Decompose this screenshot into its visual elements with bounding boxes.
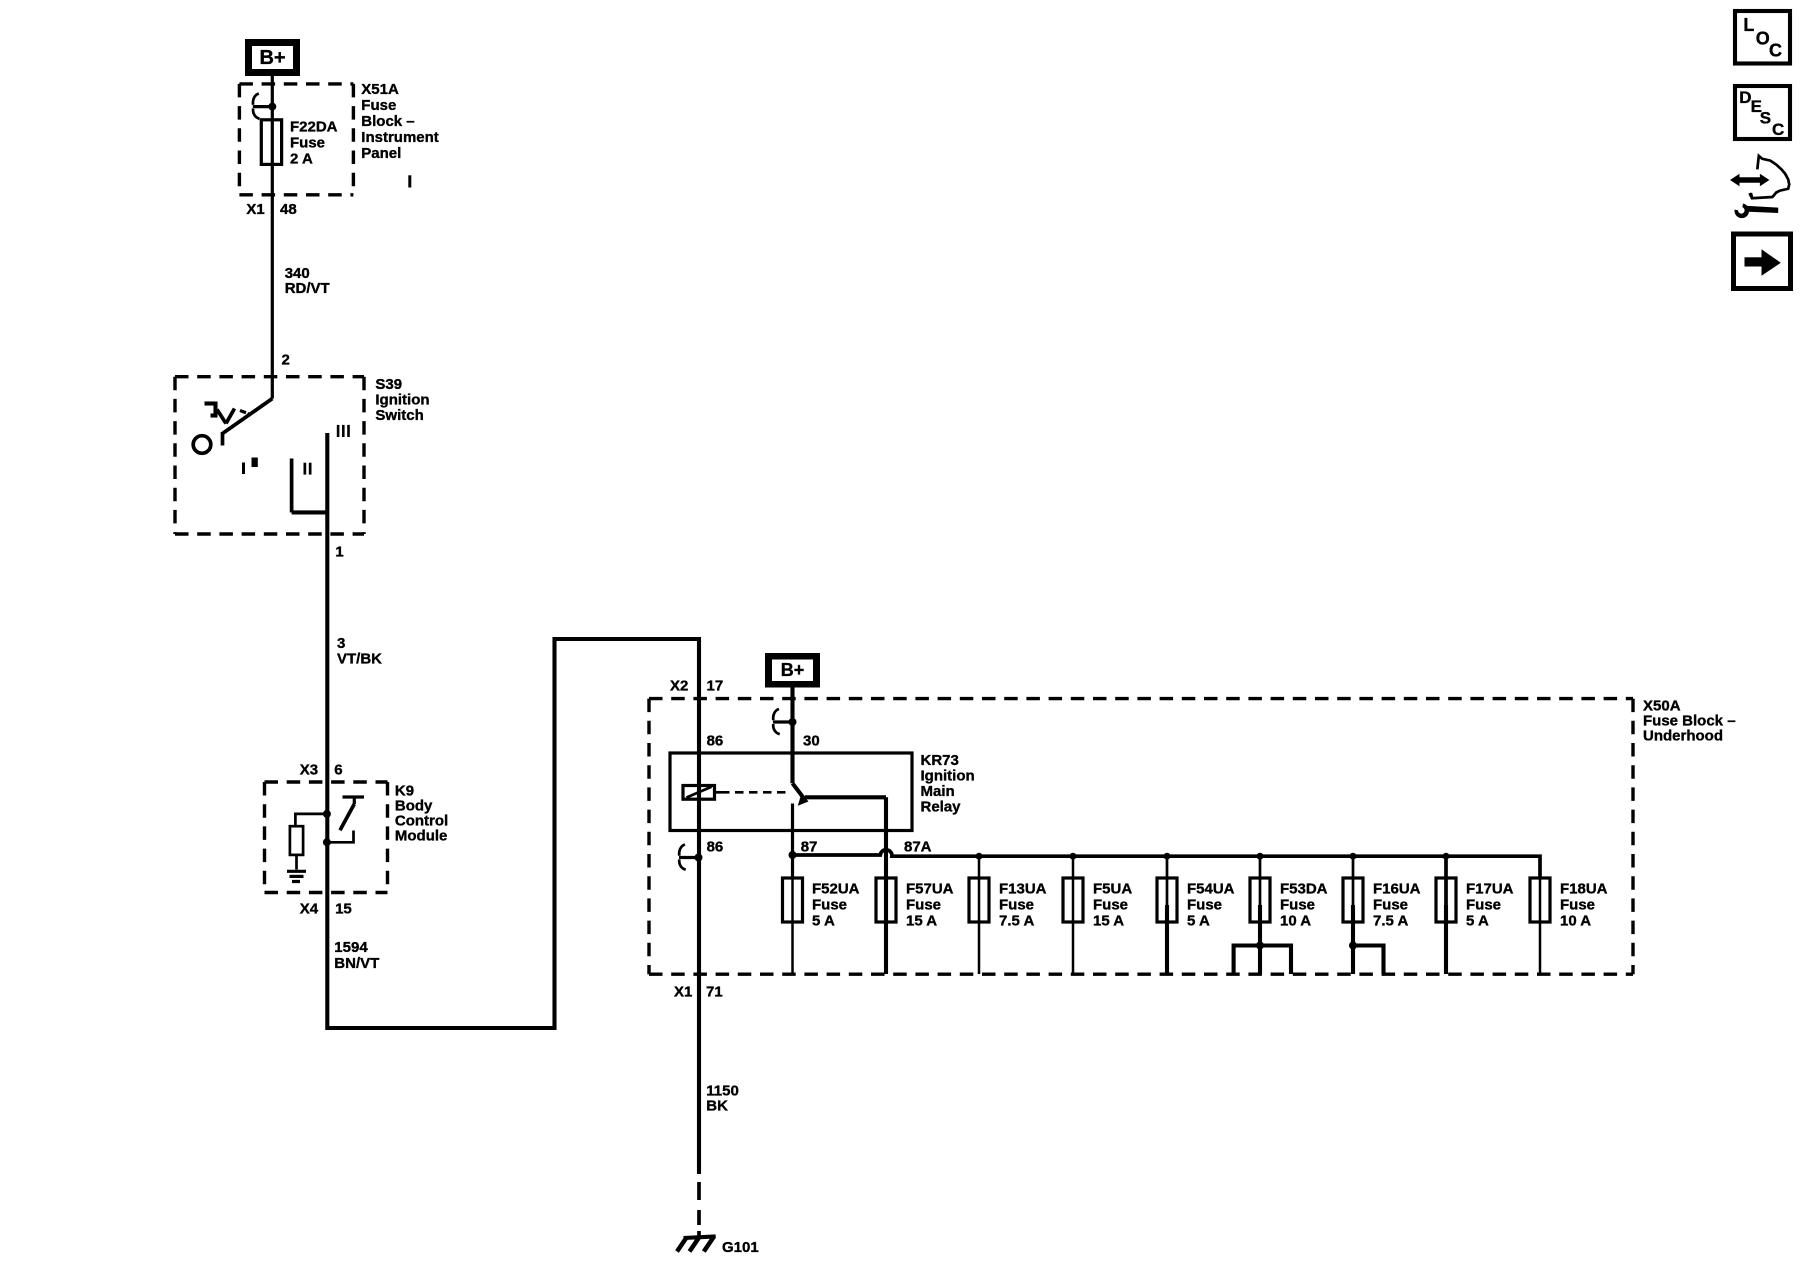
- svg-text:X51A: X51A: [361, 81, 399, 98]
- svg-text:G101: G101: [722, 1239, 759, 1256]
- svg-text:2 A: 2 A: [290, 151, 313, 168]
- svg-text:O: O: [1756, 29, 1770, 49]
- svg-text:S39: S39: [375, 376, 402, 393]
- svg-text:86: 86: [707, 839, 724, 856]
- svg-text:Ignition: Ignition: [375, 392, 429, 409]
- svg-text:17: 17: [707, 678, 724, 695]
- svg-text:Fuse: Fuse: [1187, 897, 1222, 914]
- svg-text:2: 2: [282, 352, 290, 369]
- svg-text:Fuse: Fuse: [290, 135, 325, 152]
- svg-text:F54UA: F54UA: [1187, 881, 1235, 898]
- svg-text:Fuse: Fuse: [812, 897, 847, 914]
- svg-text:5 A: 5 A: [1187, 913, 1210, 930]
- svg-text:Fuse: Fuse: [1466, 897, 1501, 914]
- svg-text:KR73: KR73: [921, 752, 959, 769]
- svg-text:48: 48: [280, 201, 297, 218]
- svg-text:X4: X4: [300, 901, 319, 918]
- svg-text:Relay: Relay: [921, 799, 962, 816]
- svg-text:F18UA: F18UA: [1560, 881, 1608, 898]
- svg-text:30: 30: [803, 733, 820, 750]
- svg-text:C: C: [1772, 120, 1784, 139]
- svg-text:1: 1: [335, 544, 343, 561]
- svg-text:87A: 87A: [904, 839, 932, 856]
- svg-text:B+: B+: [781, 660, 805, 680]
- svg-text:X2: X2: [670, 678, 688, 695]
- svg-text:F52UA: F52UA: [812, 881, 860, 898]
- svg-text:71: 71: [706, 984, 723, 1001]
- svg-text:BK: BK: [706, 1098, 728, 1115]
- svg-text:S: S: [1760, 109, 1771, 128]
- svg-text:86: 86: [707, 733, 724, 750]
- svg-text:F13UA: F13UA: [999, 881, 1047, 898]
- svg-text:1594: 1594: [334, 939, 368, 956]
- svg-text:F17UA: F17UA: [1466, 881, 1514, 898]
- svg-text:F53DA: F53DA: [1280, 881, 1328, 898]
- svg-text:F16UA: F16UA: [1373, 881, 1421, 898]
- svg-text:10 A: 10 A: [1280, 913, 1311, 930]
- svg-text:Fuse: Fuse: [1280, 897, 1315, 914]
- svg-text:5 A: 5 A: [812, 913, 835, 930]
- svg-text:Fuse: Fuse: [999, 897, 1034, 914]
- svg-text:6: 6: [334, 762, 342, 779]
- svg-text:F57UA: F57UA: [906, 881, 954, 898]
- svg-text:F22DA: F22DA: [290, 119, 338, 136]
- svg-text:X3: X3: [300, 762, 318, 779]
- svg-text:X1: X1: [246, 201, 264, 218]
- svg-text:Module: Module: [395, 828, 448, 845]
- svg-text:87: 87: [801, 839, 818, 856]
- svg-text:VT/BK: VT/BK: [337, 651, 382, 668]
- svg-text:B+: B+: [259, 47, 285, 69]
- svg-text:7.5 A: 7.5 A: [1373, 913, 1408, 930]
- svg-text:Block –: Block –: [361, 113, 414, 130]
- svg-text:Fuse: Fuse: [1093, 897, 1128, 914]
- svg-text:Panel: Panel: [361, 145, 401, 162]
- svg-text:3: 3: [337, 635, 345, 652]
- svg-text:BN/VT: BN/VT: [334, 955, 379, 972]
- svg-text:15: 15: [335, 901, 352, 918]
- svg-text:15 A: 15 A: [1093, 913, 1124, 930]
- svg-text:Main: Main: [921, 783, 955, 800]
- svg-text:15 A: 15 A: [906, 913, 937, 930]
- svg-text:Switch: Switch: [375, 407, 423, 424]
- svg-text:C: C: [1769, 41, 1782, 61]
- svg-text:7.5 A: 7.5 A: [999, 913, 1034, 930]
- svg-text:L: L: [1743, 15, 1754, 35]
- svg-text:Fuse: Fuse: [361, 97, 396, 114]
- svg-text:X1: X1: [674, 984, 692, 1001]
- svg-text:RD/VT: RD/VT: [285, 280, 330, 297]
- svg-text:Fuse: Fuse: [1560, 897, 1595, 914]
- svg-text:Fuse: Fuse: [906, 897, 941, 914]
- svg-text:5 A: 5 A: [1466, 913, 1489, 930]
- svg-text:Fuse: Fuse: [1373, 897, 1408, 914]
- svg-text:10 A: 10 A: [1560, 913, 1591, 930]
- svg-text:F5UA: F5UA: [1093, 881, 1132, 898]
- svg-text:Instrument: Instrument: [361, 129, 439, 146]
- svg-text:Ignition: Ignition: [921, 768, 975, 785]
- svg-text:Underhood: Underhood: [1643, 728, 1723, 745]
